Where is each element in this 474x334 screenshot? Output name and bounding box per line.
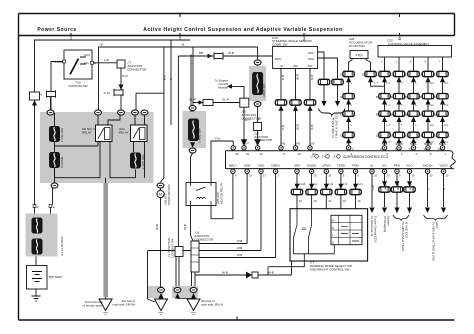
svg-text:ESS: ESS: [275, 57, 281, 61]
svg-text:Cruise Control ECU: Cruise Control ECU: [374, 216, 378, 242]
svg-text:L-Y: L-Y: [387, 123, 391, 127]
svg-text:40: 40: [235, 152, 239, 156]
svg-text:1K: 1K: [328, 199, 331, 203]
svg-text:1C: 1C: [424, 147, 427, 151]
svg-text:C 22: C 22: [104, 91, 111, 95]
svg-text:L-B: L-B: [104, 58, 109, 62]
svg-text:P: P: [443, 188, 447, 190]
svg-text:B5: B5: [420, 95, 424, 99]
svg-text:L-W: L-W: [328, 182, 333, 186]
svg-text:O-B: O-B: [310, 75, 314, 80]
svg-text:of fender apron: of fender apron: [83, 304, 104, 308]
svg-text:W-B: W-B: [183, 224, 187, 230]
svg-text:W-R: W-R: [384, 183, 388, 190]
svg-text:P-B: P-B: [281, 125, 285, 130]
svg-text:TSND: TSND: [337, 164, 346, 168]
svg-text:1 AVC 50A: 1 AVC 50A: [141, 155, 145, 169]
svg-text:SAODx: SAODx: [422, 164, 433, 168]
svg-text:W-B: W-B: [237, 246, 242, 250]
svg-text:1C: 1C: [380, 147, 383, 151]
svg-text:42: 42: [260, 152, 264, 156]
svg-text:TRAY: TRAY: [352, 164, 360, 168]
svg-text:P-B: P-B: [281, 142, 286, 146]
svg-text:LG: LG: [430, 140, 433, 144]
svg-text:B: B: [182, 43, 184, 47]
svg-text:PLO: PLO: [406, 164, 413, 168]
svg-text:1E: 1E: [362, 73, 365, 77]
svg-text:1C: 1C: [409, 147, 412, 151]
svg-text:RELAY: RELAY: [82, 131, 92, 135]
svg-text:LG: LG: [430, 103, 433, 107]
svg-text:1B: 1B: [391, 134, 394, 138]
svg-text:1B: 1B: [340, 134, 343, 138]
svg-text:W-B: W-B: [163, 75, 167, 80]
svg-text:L-Y: L-Y: [387, 81, 391, 85]
svg-text:Active Height Control Suspensi: Active Height Control Suspension and Ada…: [143, 27, 342, 33]
svg-text:G-W: G-W: [396, 184, 400, 190]
svg-text:BF1: BF1: [434, 113, 439, 117]
svg-text:VSCD: VSCD: [439, 164, 448, 168]
svg-text:CONNECTOR: CONNECTOR: [127, 68, 147, 72]
svg-text:LG: LG: [314, 182, 317, 186]
svg-text:+TO-: +TO-: [355, 54, 363, 58]
svg-text:Y: Y: [401, 103, 403, 107]
svg-text:1C: 1C: [438, 147, 441, 151]
svg-text:MOTOR RELAY: MOTOR RELAY: [220, 182, 224, 204]
svg-text:M: M: [159, 193, 162, 197]
svg-text:B-O: B-O: [123, 74, 129, 78]
svg-text:AM-B 40A: AM-B 40A: [262, 83, 266, 97]
svg-text:SS2: SS2: [308, 64, 313, 68]
svg-text:CONNECTOR: CONNECTOR: [254, 138, 272, 142]
svg-text:BF1: BF1: [405, 113, 410, 117]
svg-text:BATTERY: BATTERY: [49, 275, 63, 279]
svg-text:1B: 1B: [420, 134, 423, 138]
svg-text:1E: 1E: [340, 73, 343, 77]
svg-text:B: B: [169, 78, 173, 80]
svg-text:14: 14: [298, 152, 302, 156]
svg-text:GL-P: GL-P: [189, 98, 196, 102]
svg-text:1K: 1K: [358, 199, 361, 203]
svg-text:To ABS & BA & TRAC: To ABS & BA & TRAC: [401, 222, 405, 252]
svg-text:G-O: G-O: [358, 182, 363, 186]
svg-text:W/ MOTOR: W/ MOTOR: [349, 44, 365, 48]
svg-text:1K: 1K: [343, 199, 346, 203]
svg-text:N: N: [332, 226, 334, 230]
svg-text:L-R: L-R: [343, 182, 347, 186]
svg-text:3-: 3-: [333, 155, 336, 159]
svg-text:B-Y: B-Y: [245, 118, 250, 122]
svg-text:TH-L: TH-L: [215, 137, 221, 141]
svg-text:W-B: W-B: [268, 271, 274, 275]
svg-text:ACC: ACC: [84, 53, 91, 57]
svg-text:OHSW: OHSW: [307, 164, 317, 168]
svg-text:LG-B: LG-B: [299, 182, 305, 186]
svg-text:cowl side J/B LH: cowl side J/B LH: [201, 303, 223, 307]
svg-text:& VSC ECU: & VSC ECU: [405, 222, 409, 238]
svg-text:cowl side J/B RH: cowl side J/B RH: [112, 303, 135, 307]
svg-text:P-B: P-B: [281, 75, 285, 80]
svg-text:1B: 1B: [340, 95, 343, 99]
svg-text:1B: 1B: [405, 134, 408, 138]
svg-text:Module: Module: [218, 86, 228, 90]
svg-text:CONNECTOR: CONNECTOR: [241, 117, 261, 121]
svg-text:TRAC & VSC ECU: TRAC & VSC ECU: [335, 113, 339, 138]
svg-text:Power Source: Power Source: [37, 27, 76, 33]
svg-text:NEEU: NEEU: [271, 164, 279, 168]
svg-text:5 DOME: 5 DOME: [60, 156, 64, 168]
svg-text:P-L: P-L: [445, 81, 450, 85]
svg-text:1 CIG 15A: 1 CIG 15A: [60, 128, 64, 142]
svg-text:5-: 5-: [322, 155, 325, 159]
svg-text:IG1: IG1: [84, 61, 89, 65]
svg-text:1K: 1K: [299, 199, 302, 203]
svg-text:To Charging: To Charging: [383, 216, 387, 233]
svg-text:B6: B6: [434, 95, 438, 99]
svg-text:SS1-: SS1-: [308, 51, 315, 55]
svg-text:W-B: W-B: [222, 271, 228, 275]
svg-text:+D: +D: [279, 64, 283, 68]
svg-text:System: System: [387, 216, 391, 227]
svg-text:GNB: GNB: [244, 164, 251, 168]
svg-text:Y: Y: [401, 140, 403, 144]
svg-text:MRLY: MRLY: [229, 164, 237, 168]
svg-text:SL: SL: [370, 164, 374, 168]
svg-text:MIN: MIN: [294, 164, 300, 168]
svg-text:L-B: L-B: [371, 185, 375, 190]
svg-text:Y: Y: [401, 81, 403, 85]
svg-text:EV: EV: [382, 164, 386, 168]
svg-text:W-B: W-B: [296, 74, 300, 80]
svg-text:PUMP MOTOR: PUMP MOTOR: [167, 184, 171, 205]
svg-text:1K: 1K: [314, 199, 317, 203]
svg-text:IGNITION SW: IGNITION SW: [69, 84, 88, 88]
svg-text:1C: 1C: [395, 147, 398, 151]
svg-text:O-B: O-B: [310, 125, 314, 130]
svg-text:GND: GND: [258, 164, 266, 168]
svg-text:W-B: W-B: [237, 253, 242, 257]
svg-text:W-B: W-B: [237, 239, 242, 243]
svg-text:DB: DB: [199, 51, 203, 55]
svg-text:To ABS & BA & TRAC & VSC: To ABS & BA & TRAC & VSC: [432, 222, 436, 262]
svg-text:B: B: [101, 43, 103, 47]
svg-text:COMB. SW: COMB. SW: [272, 43, 288, 47]
svg-text:GL-P: GL-P: [222, 98, 229, 102]
svg-text:L-Y: L-Y: [387, 140, 391, 144]
svg-text:BF1: BF1: [420, 113, 425, 117]
svg-text:P-L: P-L: [445, 140, 450, 144]
svg-text:RELAY: RELAY: [119, 131, 129, 135]
svg-text:BF1: BF1: [391, 113, 396, 117]
svg-text:LG: LG: [430, 123, 433, 127]
svg-text:24: 24: [312, 152, 316, 156]
svg-text:R-W: R-W: [409, 184, 413, 190]
svg-text:S: S: [332, 240, 334, 244]
svg-text:1P: 1P: [340, 113, 343, 117]
svg-text:B7: B7: [376, 95, 380, 99]
svg-text:1B: 1B: [376, 134, 379, 138]
svg-text:L-Y: L-Y: [374, 81, 379, 85]
svg-text:H: H: [332, 219, 334, 223]
svg-text:1: 1: [70, 37, 73, 43]
svg-text:ECU: ECU: [435, 222, 439, 228]
svg-text:41: 41: [246, 152, 250, 156]
svg-text:W-B: W-B: [155, 224, 159, 230]
svg-text:SS2-: SS2-: [308, 57, 315, 61]
svg-text:B9: B9: [405, 95, 409, 99]
svg-text:AND HEIGHT CONTROL SW: AND HEIGHT CONTROL SW: [310, 268, 350, 272]
svg-text:L-Y: L-Y: [387, 103, 391, 107]
svg-text:2-1 FL BLOCK: 2-1 FL BLOCK: [60, 236, 64, 256]
svg-text:SS1: SS1: [293, 64, 298, 68]
svg-text:P-L: P-L: [445, 123, 450, 127]
svg-text:1 AM2 30A: 1 AM2 30A: [198, 128, 202, 143]
svg-text:UPSN: UPSN: [322, 164, 330, 168]
svg-text:LG: LG: [430, 81, 433, 85]
svg-text:W-B: W-B: [228, 51, 234, 55]
svg-text:Y: Y: [401, 123, 403, 127]
svg-text:PRG: PRG: [394, 164, 401, 168]
svg-text:B8: B8: [391, 95, 395, 99]
svg-text:CONNECTOR: CONNECTOR: [171, 238, 175, 258]
svg-text:BF1: BF1: [376, 113, 381, 117]
svg-text:W-B: W-B: [296, 124, 300, 130]
svg-text:P-L: P-L: [445, 103, 450, 107]
svg-text:1B: 1B: [434, 134, 437, 138]
svg-text:To Odometer &: To Odometer &: [370, 216, 374, 236]
